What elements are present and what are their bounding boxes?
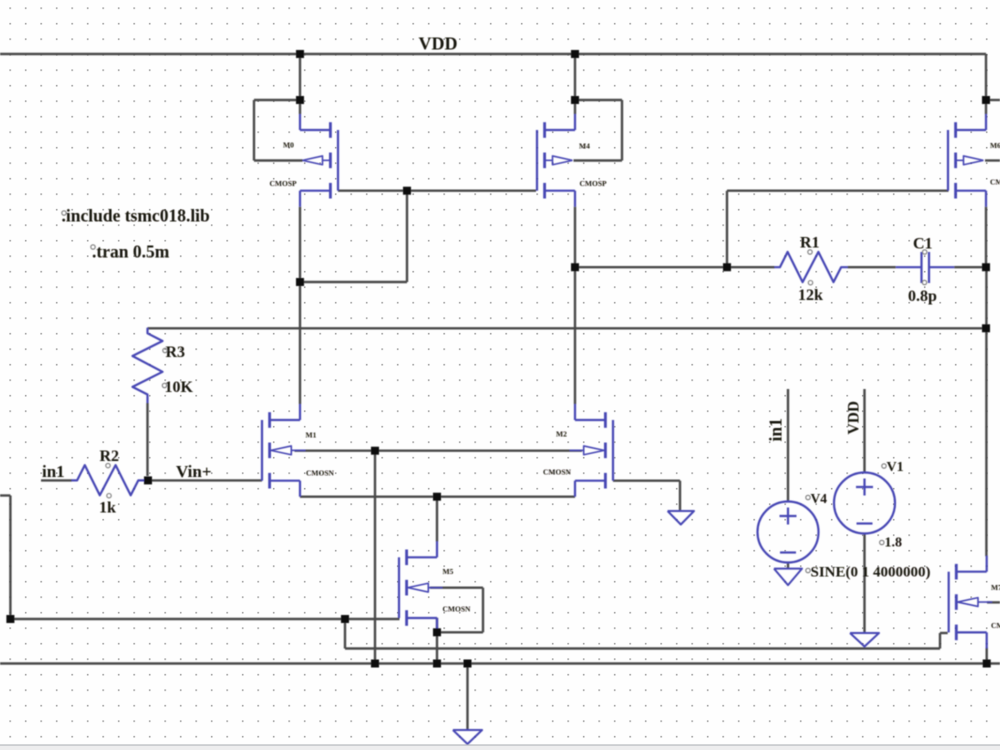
svg-text:R2: R2	[100, 448, 120, 465]
svg-text:M5: M5	[443, 567, 454, 576]
svg-text:SINE(0 1 4000000): SINE(0 1 4000000)	[811, 565, 931, 581]
svg-text:M0: M0	[283, 141, 294, 150]
svg-text:CMOSN: CMOSN	[306, 468, 335, 477]
svg-text:V1: V1	[887, 460, 904, 475]
svg-text:CMOSP: CMOSP	[990, 178, 1000, 187]
svg-text:in1: in1	[42, 462, 65, 481]
svg-text:CMOSN: CMOSN	[443, 605, 472, 614]
svg-text:1.8: 1.8	[885, 536, 903, 551]
svg-text:VDD: VDD	[846, 401, 863, 435]
svg-text:CMOSP: CMOSP	[270, 179, 298, 188]
svg-text:1k: 1k	[99, 500, 116, 517]
svg-text:Vin+: Vin+	[176, 462, 212, 481]
svg-text:CMOSN: CMOSN	[991, 621, 1000, 630]
svg-text:.include tsmc018.lib: .include tsmc018.lib	[62, 206, 211, 226]
svg-text:M6: M6	[990, 141, 1000, 150]
svg-text:R1: R1	[800, 235, 820, 252]
svg-text:.tran 0.5m: .tran 0.5m	[92, 242, 170, 262]
svg-text:R3: R3	[166, 344, 186, 361]
svg-text:V4: V4	[811, 491, 828, 506]
svg-text:M1: M1	[306, 430, 317, 439]
svg-text:M7: M7	[991, 583, 1000, 592]
svg-text:0.8p: 0.8p	[908, 288, 937, 305]
svg-text:10K: 10K	[165, 379, 194, 396]
svg-text:in1: in1	[766, 418, 786, 441]
svg-text:C1: C1	[913, 236, 933, 253]
svg-text:M4: M4	[579, 141, 590, 150]
svg-text:CMOSN: CMOSN	[543, 468, 572, 477]
svg-text:CMOSP: CMOSP	[580, 179, 608, 188]
svg-text:M2: M2	[556, 430, 567, 439]
svg-text:12k: 12k	[798, 287, 823, 304]
svg-text:VDD: VDD	[419, 34, 458, 54]
